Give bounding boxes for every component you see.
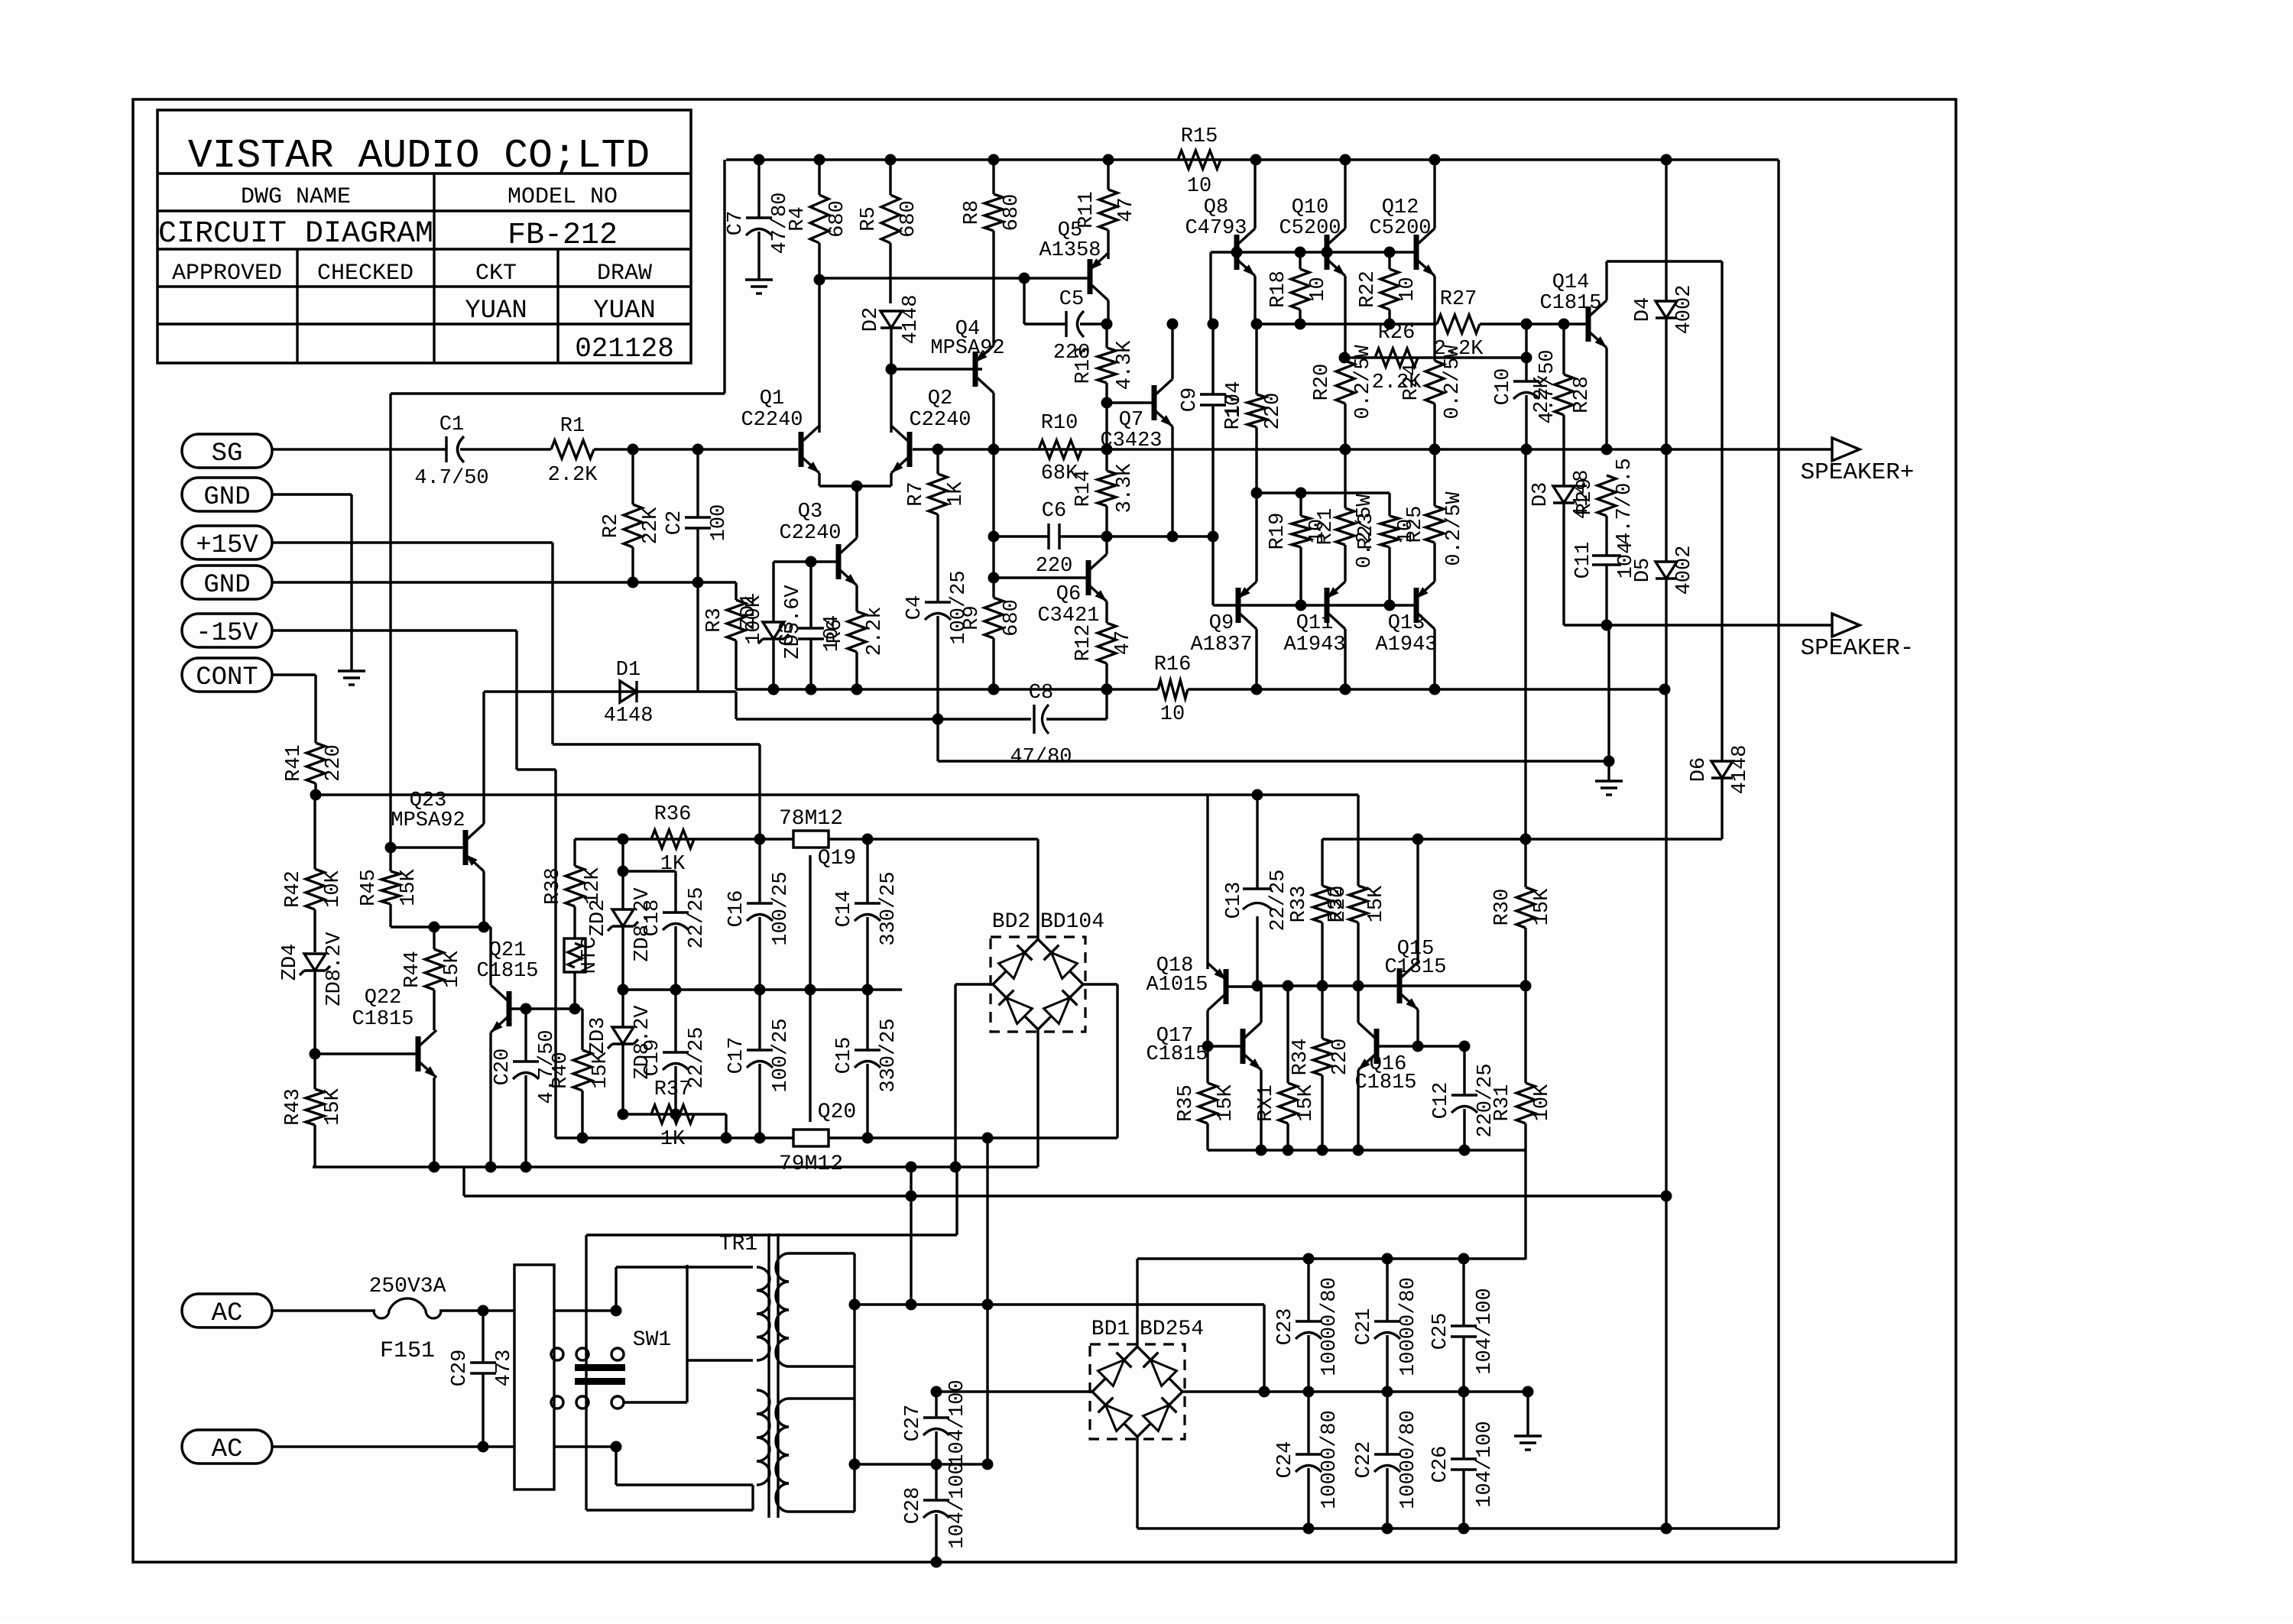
- svg-text:104/100: 104/100: [946, 1462, 969, 1548]
- svg-text:22K: 22K: [640, 507, 663, 544]
- svg-text:VISTAR AUDIO CO;LTD: VISTAR AUDIO CO;LTD: [188, 133, 650, 179]
- svg-text:C1815: C1815: [352, 1008, 414, 1031]
- svg-text:ZD4: ZD4: [279, 944, 302, 981]
- svg-text:R29: R29: [1574, 478, 1597, 516]
- svg-text:R45: R45: [358, 869, 381, 906]
- svg-text:GND: GND: [203, 571, 250, 600]
- svg-text:R22: R22: [1357, 271, 1380, 308]
- svg-text:ZD2: ZD2: [587, 900, 610, 937]
- svg-text:C22: C22: [1353, 1441, 1376, 1479]
- svg-text:BD254: BD254: [1140, 1318, 1204, 1341]
- svg-text:CHECKED: CHECKED: [317, 261, 414, 287]
- svg-text:C2: C2: [663, 511, 686, 535]
- svg-text:C11: C11: [1572, 542, 1595, 579]
- svg-text:3.3K: 3.3K: [1114, 463, 1137, 514]
- svg-text:R21: R21: [1315, 508, 1338, 546]
- svg-text:15K: 15K: [1215, 1084, 1237, 1121]
- svg-text:A1837: A1837: [1190, 634, 1252, 656]
- svg-text:-15V: -15V: [196, 619, 258, 648]
- svg-text:100/25: 100/25: [948, 570, 971, 644]
- svg-text:Q20: Q20: [818, 1100, 856, 1124]
- svg-text:R37: R37: [654, 1078, 692, 1101]
- svg-text:1K: 1K: [945, 481, 968, 507]
- svg-text:473: 473: [493, 1350, 516, 1387]
- svg-text:Q14: Q14: [1552, 271, 1590, 294]
- svg-text:220: 220: [1329, 1039, 1352, 1076]
- svg-text:22/25: 22/25: [686, 887, 709, 948]
- svg-text:FB-212: FB-212: [508, 219, 618, 253]
- svg-text:2.2K: 2.2K: [1372, 371, 1422, 394]
- svg-text:C7: C7: [725, 211, 748, 235]
- svg-text:YUAN: YUAN: [465, 297, 527, 326]
- svg-text:2.2k: 2.2k: [864, 607, 887, 656]
- svg-text:330/25: 330/25: [877, 871, 900, 945]
- svg-text:+15V: +15V: [196, 531, 258, 560]
- svg-text:R33: R33: [1288, 886, 1311, 923]
- svg-text:2.2K: 2.2K: [548, 464, 598, 487]
- svg-text:C28: C28: [902, 1487, 925, 1525]
- svg-text:15K: 15K: [441, 950, 464, 987]
- svg-text:R19: R19: [1267, 513, 1289, 550]
- svg-text:10: 10: [1187, 175, 1211, 198]
- svg-text:220: 220: [1036, 555, 1073, 578]
- svg-text:C2240: C2240: [741, 409, 803, 432]
- svg-text:C26: C26: [1429, 1446, 1452, 1483]
- svg-text:0.2/5W: 0.2/5W: [1443, 491, 1466, 566]
- svg-text:Q2: Q2: [928, 387, 952, 410]
- svg-text:C21: C21: [1353, 1308, 1376, 1346]
- svg-text:Q9: Q9: [1209, 612, 1234, 635]
- svg-text:4.7/0.5: 4.7/0.5: [1614, 458, 1636, 544]
- svg-text:RX1: RX1: [1255, 1084, 1278, 1122]
- svg-text:F151: F151: [380, 1338, 435, 1364]
- svg-text:10000/80: 10000/80: [1397, 1410, 1420, 1509]
- svg-text:4.7/50: 4.7/50: [414, 467, 488, 490]
- svg-text:C20: C20: [491, 1049, 514, 1086]
- svg-text:A1943: A1943: [1375, 634, 1437, 656]
- svg-text:A1015: A1015: [1146, 974, 1208, 997]
- svg-text:R44: R44: [401, 951, 424, 988]
- svg-text:4148: 4148: [900, 295, 923, 345]
- svg-text:C5200: C5200: [1279, 217, 1341, 240]
- svg-text:104/100: 104/100: [946, 1379, 969, 1466]
- svg-text:C1: C1: [439, 413, 464, 436]
- svg-text:R35: R35: [1175, 1084, 1198, 1122]
- svg-text:47: 47: [1115, 197, 1138, 222]
- svg-text:TR1: TR1: [719, 1233, 757, 1256]
- svg-text:C3423: C3423: [1100, 430, 1162, 452]
- svg-text:220: 220: [1328, 886, 1351, 923]
- svg-text:MPSA92: MPSA92: [930, 337, 1004, 360]
- svg-text:C12: C12: [1430, 1082, 1453, 1120]
- svg-text:10K: 10K: [1531, 1084, 1554, 1121]
- svg-text:R34: R34: [1289, 1039, 1312, 1076]
- svg-text:C4: C4: [903, 595, 926, 620]
- svg-text:C8: C8: [1029, 682, 1053, 705]
- svg-text:C5200: C5200: [1369, 217, 1431, 240]
- svg-text:104/100: 104/100: [1474, 1421, 1497, 1507]
- svg-text:DWG NAME: DWG NAME: [241, 184, 351, 210]
- svg-text:100K: 100K: [743, 595, 766, 645]
- svg-text:C4793: C4793: [1185, 217, 1247, 240]
- svg-text:GND: GND: [203, 483, 250, 512]
- svg-text:C1815: C1815: [1354, 1071, 1416, 1094]
- svg-text:C24: C24: [1274, 1441, 1297, 1479]
- svg-text:R18: R18: [1267, 271, 1290, 308]
- svg-text:YUAN: YUAN: [593, 297, 656, 326]
- svg-text:R28: R28: [1571, 376, 1594, 413]
- svg-text:R26: R26: [1378, 322, 1416, 345]
- svg-text:Q12: Q12: [1382, 196, 1419, 219]
- svg-text:AC: AC: [212, 1435, 243, 1464]
- svg-text:D6: D6: [1688, 757, 1711, 782]
- svg-text:4002: 4002: [1673, 546, 1696, 595]
- svg-text:22/25: 22/25: [1267, 869, 1290, 931]
- svg-text:C14: C14: [833, 890, 856, 928]
- svg-text:R16: R16: [1154, 653, 1192, 676]
- svg-text:C10: C10: [1492, 368, 1515, 406]
- svg-text:10: 10: [1396, 277, 1419, 301]
- svg-text:680: 680: [1001, 194, 1023, 232]
- svg-text:SPEAKER+: SPEAKER+: [1801, 459, 1915, 486]
- svg-text:R43: R43: [282, 1088, 305, 1126]
- svg-text:Q11: Q11: [1296, 612, 1334, 635]
- svg-text:R42: R42: [282, 870, 305, 908]
- svg-text:CKT: CKT: [475, 261, 517, 287]
- svg-text:APPROVED: APPROVED: [172, 261, 282, 287]
- svg-text:330/25: 330/25: [877, 1018, 900, 1092]
- svg-text:47: 47: [1112, 630, 1135, 655]
- svg-text:104: 104: [821, 615, 844, 653]
- svg-text:C3421: C3421: [1037, 605, 1099, 627]
- svg-text:22K: 22K: [1531, 375, 1554, 413]
- svg-text:0.2/5W: 0.2/5W: [1354, 494, 1377, 569]
- svg-text:R3: R3: [703, 608, 726, 632]
- svg-text:BD104: BD104: [1040, 910, 1104, 934]
- svg-text:680: 680: [1001, 599, 1023, 637]
- svg-text:021128: 021128: [575, 333, 674, 365]
- svg-text:12K: 12K: [582, 867, 605, 904]
- svg-text:ZD8.2V: ZD8.2V: [323, 932, 346, 1006]
- svg-text:100/25: 100/25: [770, 871, 793, 945]
- svg-text:C9: C9: [1179, 387, 1202, 412]
- svg-text:R8: R8: [961, 200, 984, 225]
- svg-text:100/25: 100/25: [770, 1018, 793, 1092]
- svg-text:C15: C15: [833, 1037, 856, 1075]
- svg-text:C3: C3: [777, 621, 799, 646]
- svg-text:R2: R2: [600, 514, 623, 538]
- svg-text:4002: 4002: [1673, 285, 1696, 335]
- svg-text:C5: C5: [1059, 288, 1084, 311]
- svg-text:SPEAKER-: SPEAKER-: [1801, 635, 1915, 662]
- svg-text:D1: D1: [616, 659, 641, 682]
- svg-text:4148: 4148: [1729, 745, 1752, 795]
- svg-text:DRAW: DRAW: [597, 261, 652, 287]
- svg-text:Q19: Q19: [818, 847, 856, 870]
- svg-text:100: 100: [708, 504, 731, 542]
- svg-text:C2240: C2240: [779, 522, 841, 545]
- svg-text:C29: C29: [449, 1350, 472, 1387]
- svg-text:R31: R31: [1491, 1084, 1514, 1122]
- svg-text:R13: R13: [1072, 347, 1095, 384]
- svg-text:79M12: 79M12: [779, 1152, 843, 1176]
- svg-text:1K: 1K: [660, 1128, 686, 1151]
- svg-text:BD1: BD1: [1091, 1318, 1130, 1341]
- svg-text:15K: 15K: [322, 1088, 345, 1125]
- svg-text:C19: C19: [641, 1039, 664, 1077]
- svg-text:R15: R15: [1181, 125, 1218, 148]
- svg-text:R12: R12: [1072, 624, 1095, 662]
- svg-text:D5: D5: [1632, 558, 1655, 582]
- svg-text:R25: R25: [1404, 506, 1427, 543]
- svg-text:A1358: A1358: [1039, 239, 1101, 262]
- svg-text:SG: SG: [212, 439, 243, 468]
- svg-text:C23: C23: [1274, 1308, 1297, 1346]
- svg-text:10000/80: 10000/80: [1318, 1410, 1341, 1509]
- svg-text:47/80: 47/80: [1010, 746, 1072, 769]
- svg-text:R10: R10: [1041, 412, 1078, 435]
- svg-text:R17: R17: [1222, 393, 1245, 430]
- svg-text:R5: R5: [858, 206, 881, 231]
- svg-text:BD2: BD2: [992, 910, 1030, 934]
- svg-text:C13: C13: [1223, 882, 1246, 919]
- svg-text:Q8: Q8: [1204, 196, 1228, 219]
- svg-text:Q13: Q13: [1388, 612, 1425, 635]
- svg-text:R36: R36: [654, 803, 692, 826]
- svg-text:AC: AC: [212, 1299, 243, 1328]
- svg-text:C25: C25: [1429, 1313, 1452, 1350]
- svg-text:10: 10: [1307, 277, 1330, 301]
- svg-text:C1815: C1815: [1384, 956, 1446, 979]
- svg-text:Q10: Q10: [1292, 196, 1329, 219]
- svg-text:R1: R1: [560, 415, 585, 438]
- svg-text:SW1: SW1: [633, 1328, 671, 1352]
- svg-text:680: 680: [897, 200, 920, 238]
- svg-text:R40: R40: [550, 1052, 572, 1089]
- svg-text:D3: D3: [1529, 482, 1552, 507]
- svg-text:R4: R4: [786, 206, 809, 231]
- svg-text:220: 220: [1262, 393, 1285, 430]
- svg-text:R30: R30: [1491, 889, 1514, 926]
- svg-text:C1815: C1815: [1146, 1043, 1208, 1066]
- svg-text:CONT: CONT: [196, 663, 258, 692]
- svg-text:15K: 15K: [1365, 885, 1388, 922]
- svg-text:C2240: C2240: [909, 409, 971, 432]
- svg-text:Q21: Q21: [489, 939, 527, 962]
- svg-text:15K: 15K: [397, 868, 420, 906]
- svg-text:Q1: Q1: [760, 387, 784, 410]
- svg-text:104/100: 104/100: [1474, 1288, 1497, 1374]
- svg-text:15K: 15K: [589, 1051, 612, 1088]
- svg-text:MODEL NO: MODEL NO: [508, 184, 618, 210]
- svg-text:680: 680: [826, 200, 849, 238]
- svg-text:R20: R20: [1311, 364, 1334, 401]
- svg-text:C17: C17: [725, 1037, 748, 1075]
- svg-text:250V3A: 250V3A: [369, 1275, 446, 1298]
- svg-text:78M12: 78M12: [779, 807, 843, 831]
- svg-text:10: 10: [1160, 703, 1185, 726]
- svg-text:Q22: Q22: [365, 987, 402, 1010]
- svg-text:R7: R7: [905, 481, 928, 506]
- svg-text:68K: 68K: [1041, 462, 1078, 485]
- svg-text:4148: 4148: [604, 705, 654, 728]
- svg-text:R38: R38: [542, 867, 565, 905]
- svg-text:C1815: C1815: [1539, 292, 1601, 315]
- svg-text:4.3K: 4.3K: [1114, 340, 1137, 391]
- svg-text:A1943: A1943: [1283, 634, 1345, 656]
- svg-text:Q7: Q7: [1119, 409, 1143, 432]
- svg-text:C18: C18: [641, 900, 664, 937]
- svg-text:NTC: NTC: [579, 937, 602, 974]
- svg-text:C16: C16: [725, 890, 748, 928]
- svg-text:C27: C27: [902, 1405, 925, 1442]
- svg-text:Q6: Q6: [1056, 583, 1081, 606]
- svg-text:D2: D2: [860, 307, 883, 332]
- svg-text:10K: 10K: [322, 870, 345, 907]
- svg-text:C6: C6: [1042, 500, 1066, 523]
- svg-text:ZD3: ZD3: [587, 1017, 610, 1055]
- svg-text:10000/80: 10000/80: [1397, 1277, 1420, 1376]
- svg-text:R27: R27: [1440, 288, 1477, 311]
- svg-text:15K: 15K: [1295, 1084, 1318, 1121]
- svg-text:220: 220: [323, 744, 345, 782]
- svg-text:10000/80: 10000/80: [1318, 1277, 1341, 1376]
- svg-text:CIRCUIT DIAGRAM: CIRCUIT DIAGRAM: [158, 217, 433, 251]
- svg-text:D4: D4: [1632, 297, 1655, 322]
- svg-text:MPSA92: MPSA92: [391, 809, 465, 832]
- svg-text:R41: R41: [283, 744, 306, 782]
- svg-text:15K: 15K: [1531, 888, 1554, 925]
- svg-text:Q3: Q3: [798, 501, 822, 524]
- svg-text:C1815: C1815: [476, 960, 538, 983]
